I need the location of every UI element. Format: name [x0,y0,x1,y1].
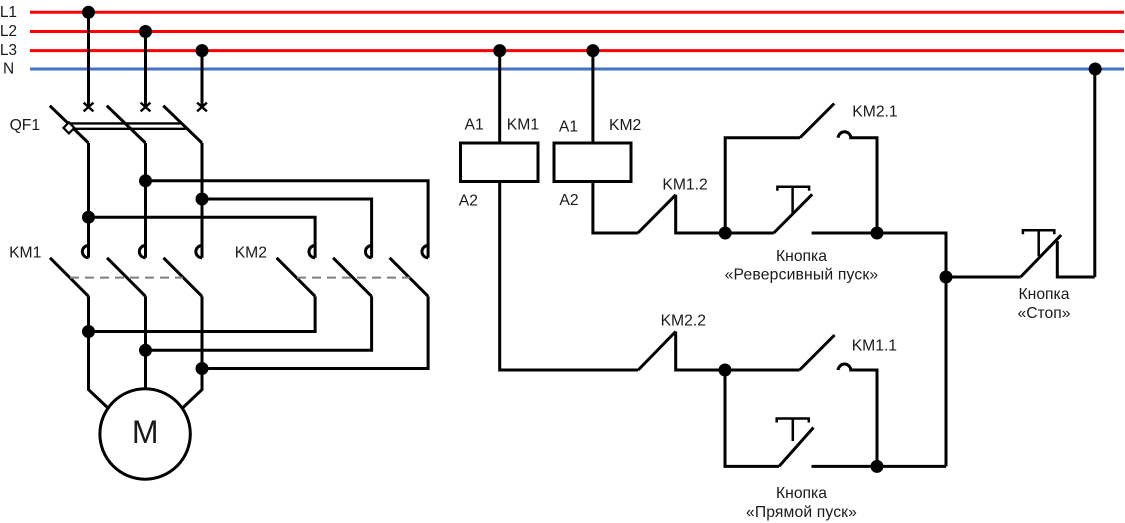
motor M circle [100,389,190,479]
node L3 tap KM2 coil [588,46,598,56]
wire bus A to KM2 pole1 [89,217,316,258]
node tie pole2 [141,345,151,355]
svg-text:A2: A2 [559,192,578,209]
wire to KM1.1 [725,369,800,372]
contact KM2.2 [638,332,725,371]
node stop branch [941,272,951,282]
wire KM1.1 fixed [849,370,877,466]
node tie pole3 [197,364,207,374]
svg-text:A1: A1 [465,117,484,134]
wire KM2 coil down [593,182,638,234]
node N tap [1090,64,1100,74]
wire stop to N [1093,69,1096,277]
breaker QF1 handle diamond [64,122,75,133]
wire up to KM2.1 [725,138,800,233]
svg-text:KM1.1: KM1.1 [852,338,897,355]
button reverse actuator [777,187,809,213]
wire L3 to KM2 coil [591,51,594,143]
node phase A to KM2 [84,212,94,222]
wire L1 drop [87,12,90,107]
terminal X pole 1 [84,103,94,112]
contact KM2.1 hook [838,132,851,138]
contact KM1.1 hook [838,364,851,370]
svg-text:L2: L2 [0,23,17,40]
wire KM1 pole2 to motor [144,296,147,389]
node top branch [720,228,730,238]
terminal X pole 2 [141,103,151,112]
svg-text:KM1: KM1 [9,245,41,262]
wire reverse button right [812,232,877,235]
wire L3 to KM1 coil [498,51,501,143]
node KM1.1 to rail [872,461,882,471]
svg-text:KM1.2: KM1.2 [662,177,707,194]
KM1 pole1 contact [50,246,89,297]
svg-text:Кнопка: Кнопка [776,485,827,502]
svg-text:KM2.1: KM2.1 [852,104,897,121]
svg-text:M: M [132,414,159,450]
svg-text:«Стоп»: «Стоп» [1017,305,1070,322]
breaker QF1 tie bar [68,123,186,128]
wire stop branch left [946,276,1021,279]
contact KM2.1 blade [800,104,834,138]
contact KM1.2 [638,195,725,233]
wire QF1 pole1 down [87,143,90,258]
svg-text:QF1: QF1 [10,117,41,134]
wire top rail to right riser [877,233,946,466]
svg-text:A2: A2 [459,193,478,210]
wire bus B to KM2 pole3 [146,181,429,258]
breaker QF1 pole 1 blade [50,106,89,143]
KM2 linkage dashed [297,277,410,279]
node bottom branch [720,365,730,375]
svg-text:L1: L1 [0,4,17,21]
button direct-start blade [779,428,814,467]
svg-text:KM2: KM2 [609,117,641,134]
wire bus C to KM2 pole2 [202,199,372,258]
svg-text:Кнопка: Кнопка [776,248,827,265]
breaker QF1 pole 2 blade [107,106,146,143]
svg-text:KM1: KM1 [507,117,539,134]
wire KM1 pole1 to motor [89,296,109,408]
button stop fixed [1057,241,1095,277]
wire L2 drop [144,32,147,108]
wire bottom rail [812,465,947,468]
wire KM1 coil down [500,182,639,371]
KM2 pole3 contact [390,246,429,297]
svg-text:Кнопка: Кнопка [1019,286,1070,303]
svg-text:N: N [3,61,14,78]
wire KM2.1 fixed [849,138,877,233]
button stop actuator [1023,230,1054,256]
node L2 tap [141,27,151,37]
KM1 pole2 contact [107,246,146,297]
node phase C to KM2 [197,194,207,204]
power rail L2 [30,30,1124,33]
node KM2.1 bottom [872,228,882,238]
KM1 pole3 contact [164,246,203,297]
svg-text:KM2: KM2 [235,245,267,262]
contact KM1.1 blade [800,335,835,370]
svg-text:A1: A1 [559,119,578,136]
KM2 pole1 contact [277,246,316,297]
node L3 tap KM1 coil [495,46,505,56]
wire QF1 pole3 down [201,143,204,258]
KM1 linkage dashed [70,277,183,279]
button reverse blade [774,194,813,233]
power rail L3 [30,49,1124,52]
wire L3 drop [201,51,204,107]
coil KM2 box [554,143,631,182]
svg-text:KM2.2: KM2.2 [661,313,706,330]
svg-text:«Реверсивный пуск»: «Реверсивный пуск» [725,266,879,283]
wire KM2 pole2 return [146,296,372,350]
svg-text:L3: L3 [0,42,17,59]
button stop blade [1021,235,1062,277]
svg-text:«Прямой пуск»: «Прямой пуск» [746,504,857,521]
power rail N (neutral) [30,68,1124,71]
breaker QF1 pole 3 blade [163,106,202,143]
node phase B to KM2 [141,176,151,186]
wire KM2 pole3 return [202,296,428,368]
node L3 tap [197,46,207,56]
node L1 tap [84,7,94,17]
wire QF1 pole2 down [144,143,147,258]
coil KM1 box [461,143,539,182]
button direct-start actuator [777,419,809,442]
wire KM2 pole1 return [89,296,316,331]
power rail L1 [30,11,1124,14]
node tie pole1 [84,327,94,337]
wire reverse button left [725,232,774,235]
wire down to bottom rail [725,370,779,466]
wire KM1 pole3 to motor [182,296,202,408]
terminal X pole 3 [197,103,207,112]
KM2 pole2 contact [333,246,372,297]
